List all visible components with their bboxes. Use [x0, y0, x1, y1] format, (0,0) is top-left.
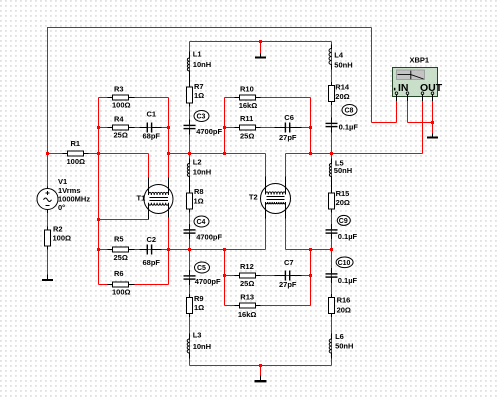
- svg-text:1Ω: 1Ω: [194, 303, 204, 312]
- label C9: [337, 215, 350, 225]
- capacitor C7 plates: [285, 271, 286, 281]
- svg-text:L2: L2: [193, 158, 202, 167]
- wire R3 row: [99, 97, 169, 99]
- svg-text:4700pF: 4700pF: [195, 277, 221, 286]
- wire R11 C6 row: [225, 127, 311, 129]
- wire right column lower: [331, 250, 333, 366]
- svg-text:C3: C3: [197, 114, 206, 121]
- node coupler1 left: [223, 152, 226, 155]
- svg-text:R4: R4: [114, 114, 124, 123]
- wire net D rail: [169, 249, 266, 251]
- svg-text:100Ω: 100Ω: [112, 101, 131, 110]
- wire net A rail to T1: [48, 153, 149, 155]
- resistor R4: [108, 127, 135, 129]
- capacitor C8 plates: [326, 123, 338, 124]
- svg-text:4700pF: 4700pF: [196, 127, 222, 136]
- svg-text:0.1µF: 0.1µF: [338, 276, 358, 285]
- wire upper coupler right vertical: [310, 98, 312, 154]
- node R5 left: [97, 248, 100, 251]
- svg-text:100Ω: 100Ω: [67, 157, 86, 166]
- wire bottom ground stem: [260, 366, 262, 376]
- resistor R6: [108, 284, 135, 286]
- svg-text:R10: R10: [240, 85, 254, 94]
- node coupler2 right: [309, 248, 312, 251]
- capacitor C2 leads: [140, 249, 162, 251]
- svg-text:R2: R2: [53, 225, 63, 234]
- wire left inner column upper: [189, 42, 191, 154]
- svg-text:R7: R7: [194, 82, 204, 91]
- resistor R5: [108, 249, 135, 251]
- capacitor C6 plates: [285, 123, 286, 133]
- svg-text:XBP1: XBP1: [410, 56, 430, 65]
- resistor R1: [63, 153, 89, 155]
- svg-text:T2: T2: [249, 193, 258, 202]
- wire R10 row: [225, 97, 311, 99]
- svg-text:L3: L3: [193, 331, 202, 340]
- ground top (stem+bar): [260, 54, 262, 57]
- capacitor C3 leads: [189, 120, 191, 135]
- wire T1 bottom-right vertical: [168, 217, 170, 285]
- capacitor C2 plates: [147, 245, 148, 255]
- wire right column middle: [331, 154, 333, 250]
- label C3: [194, 111, 209, 122]
- capacitor C4 plates: [184, 229, 196, 230]
- transformer T1: [144, 178, 173, 220]
- svg-text:L1: L1: [193, 50, 202, 59]
- wire OUT- vertical to ground: [432, 101, 434, 134]
- svg-text:100Ω: 100Ω: [53, 234, 72, 243]
- capacitor C7 leads: [275, 275, 302, 277]
- wire R13 row: [225, 305, 311, 307]
- wire left vertical to V1: [47, 27, 49, 187]
- svg-text:10nH: 10nH: [193, 168, 211, 177]
- resistor R14: [331, 82, 333, 105]
- ground top bar: [255, 57, 266, 59]
- svg-text:R13: R13: [240, 292, 254, 301]
- wire upper coupler left vertical: [224, 98, 226, 154]
- inductor L3: [187, 334, 189, 359]
- capacitor C9 leads: [331, 224, 333, 239]
- capacitor C10 plates: [326, 273, 338, 274]
- capacitor C3 plates: [184, 125, 196, 126]
- node C9-C10: [330, 248, 333, 251]
- wire net C rail: [286, 153, 423, 155]
- wire left inner column middle: [189, 154, 191, 250]
- wire R5 C2 row: [99, 249, 169, 251]
- svg-text:4700pF: 4700pF: [196, 232, 222, 241]
- capacitor C4 leads: [189, 224, 191, 239]
- svg-text:V1: V1: [58, 177, 67, 186]
- wire IN- horizontal to ground node: [408, 122, 433, 124]
- capacitor C1 plates: [147, 123, 148, 133]
- capacitor C10 leads: [331, 268, 333, 283]
- svg-text:R16: R16: [337, 296, 351, 305]
- node coupler1 right: [309, 152, 312, 155]
- svg-text:10nH: 10nH: [193, 342, 211, 351]
- inductor L6: [329, 334, 331, 359]
- svg-text:C10: C10: [338, 260, 351, 267]
- svg-text:10nH: 10nH: [193, 60, 211, 69]
- wire inner top rail: [190, 41, 332, 43]
- svg-text:20Ω: 20Ω: [335, 92, 349, 101]
- resistor R11: [235, 127, 261, 129]
- svg-text:R14: R14: [335, 83, 350, 92]
- node T1 top-right: [167, 152, 170, 155]
- inductor L5: [329, 159, 331, 190]
- resistor R13: [235, 305, 261, 307]
- node R1 right: [97, 152, 100, 155]
- wire T1 top-left pin wire: [148, 154, 150, 179]
- svg-text:50nH: 50nH: [335, 342, 353, 351]
- svg-text:C9: C9: [339, 218, 348, 225]
- svg-text:C8: C8: [345, 108, 354, 115]
- resistor R8: [189, 190, 191, 213]
- node C2 right: [167, 248, 170, 251]
- svg-text:27pF: 27pF: [279, 280, 297, 289]
- svg-text:C5: C5: [197, 265, 206, 272]
- svg-text:50nH: 50nH: [334, 61, 352, 70]
- wire right column upper: [331, 42, 333, 154]
- svg-text:OUT: OUT: [420, 82, 443, 94]
- wire V1 to R2 to ground: [47, 210, 49, 275]
- ground left bar: [42, 279, 53, 281]
- svg-text:25Ω: 25Ω: [240, 279, 254, 288]
- svg-text:R12: R12: [240, 262, 254, 271]
- source V1: [37, 187, 58, 214]
- svg-text:25Ω: 25Ω: [114, 253, 128, 262]
- wire T2 top-right pin wire: [285, 154, 287, 178]
- wire net E rail: [286, 249, 332, 251]
- label C10: [336, 257, 353, 268]
- node XBP1 ground: [431, 121, 434, 124]
- wire T2 bottom-left pin wire: [265, 218, 267, 250]
- inductor L4: [329, 45, 332, 70]
- ground right bar: [427, 137, 438, 139]
- svg-text:C1: C1: [147, 109, 157, 118]
- wire R12 C7 row: [225, 275, 311, 277]
- svg-text:C4: C4: [197, 219, 206, 226]
- svg-text:50nH: 50nH: [334, 166, 352, 175]
- node coupler2 left: [223, 248, 226, 251]
- wire lower coupler left vertical: [224, 250, 226, 306]
- svg-text:R6: R6: [114, 269, 124, 278]
- svg-text:T1: T1: [137, 193, 146, 202]
- svg-text:L6: L6: [335, 332, 344, 341]
- capacitor C5 plates: [184, 275, 196, 276]
- svg-text:IN: IN: [398, 82, 409, 94]
- capacitor C1 leads: [140, 127, 162, 129]
- svg-text:C7: C7: [284, 258, 294, 267]
- wire T2 bottom-right pin wire: [285, 218, 287, 250]
- ground right stem: [432, 134, 434, 137]
- node C6 right: [309, 126, 312, 129]
- wire R4 C1 row: [99, 127, 169, 129]
- resistor R16: [331, 294, 333, 317]
- capacitor C6 leads: [275, 127, 302, 129]
- ground bottom bar: [255, 380, 267, 382]
- wire T2 top-left pin wire: [265, 154, 267, 178]
- wire net B rail: [169, 153, 266, 155]
- label C5: [195, 262, 210, 273]
- wire right outer vertical: [371, 28, 373, 123]
- svg-text:16kΩ: 16kΩ: [238, 310, 257, 319]
- svg-text:C2: C2: [147, 235, 157, 244]
- node bottom ground: [259, 364, 262, 367]
- wire IN+ vertical to XBP1: [396, 101, 398, 123]
- wire left column vertical: [98, 98, 100, 285]
- node C3 bottom: [188, 152, 191, 155]
- wire left inner column lower: [189, 250, 191, 366]
- svg-text:16kΩ: 16kΩ: [239, 101, 258, 110]
- node top ground: [259, 40, 262, 43]
- node C1 right: [167, 126, 170, 129]
- resistor R12: [235, 275, 261, 277]
- wire OUT+ vertical: [422, 101, 424, 154]
- svg-text:1Ω: 1Ω: [194, 91, 204, 100]
- node R4 left: [97, 126, 100, 129]
- node R11 left: [223, 126, 226, 129]
- ground left stem: [47, 275, 49, 280]
- resistor R2: [47, 227, 49, 250]
- svg-text:0.1µF: 0.1µF: [338, 232, 358, 241]
- node C4-C5: [188, 248, 191, 251]
- transformer T2: [261, 177, 291, 219]
- svg-text:20Ω: 20Ω: [337, 306, 351, 315]
- svg-text:R9: R9: [194, 294, 204, 303]
- node C8 bottom: [330, 152, 333, 155]
- svg-text:20Ω: 20Ω: [336, 198, 350, 207]
- label C4: [194, 216, 209, 227]
- svg-text:27pF: 27pF: [279, 133, 297, 142]
- resistor R15: [331, 190, 333, 213]
- wire T1 bottom-left row: [99, 219, 149, 221]
- capacitor C8 leads: [331, 118, 333, 133]
- capacitor C9 plates: [326, 229, 338, 230]
- wire R6 row: [99, 284, 169, 286]
- resistor R9: [189, 294, 191, 317]
- svg-text:100Ω: 100Ω: [112, 288, 131, 297]
- svg-text:25Ω: 25Ω: [240, 132, 254, 141]
- svg-text:L4: L4: [334, 51, 344, 60]
- resistor R7: [189, 84, 191, 107]
- svg-text:R15: R15: [336, 189, 350, 198]
- wire outer top rail: [48, 27, 372, 29]
- wire IN- vertical from XBP1: [407, 101, 409, 123]
- svg-text:R1: R1: [71, 139, 81, 148]
- svg-text:R11: R11: [240, 114, 253, 123]
- inductor L2: [187, 159, 189, 190]
- svg-text:0°: 0°: [58, 203, 65, 212]
- node R12 left: [223, 274, 226, 277]
- svg-text:1Ω: 1Ω: [194, 197, 204, 206]
- resistor R3: [108, 97, 135, 99]
- wire R3 right vertical to T1 top-right: [168, 98, 170, 179]
- svg-text:C6: C6: [284, 113, 294, 122]
- ground bottom stem: [260, 376, 262, 381]
- resistor R10: [235, 97, 261, 99]
- svg-text:25Ω: 25Ω: [114, 131, 128, 140]
- svg-text:68pF: 68pF: [143, 258, 161, 267]
- svg-text:R3: R3: [114, 84, 124, 93]
- label C8: [342, 105, 357, 116]
- node R1-V1: [46, 152, 49, 155]
- svg-text:0.1µF: 0.1µF: [339, 123, 359, 132]
- instrument XBP1 bode plotter: [393, 68, 438, 102]
- svg-text:R5: R5: [114, 234, 124, 243]
- wire IN+ horizontal: [372, 122, 397, 124]
- wire bottom rail: [190, 365, 332, 367]
- node C7 right: [309, 274, 312, 277]
- svg-text:68pF: 68pF: [143, 131, 161, 140]
- wire lower coupler right vertical: [310, 250, 312, 306]
- node T1 bottom-left: [97, 218, 100, 221]
- inductor L1: [187, 52, 189, 84]
- wire top ground stem: [260, 42, 262, 54]
- capacitor C5 leads: [189, 270, 191, 285]
- svg-text:R8: R8: [194, 187, 204, 196]
